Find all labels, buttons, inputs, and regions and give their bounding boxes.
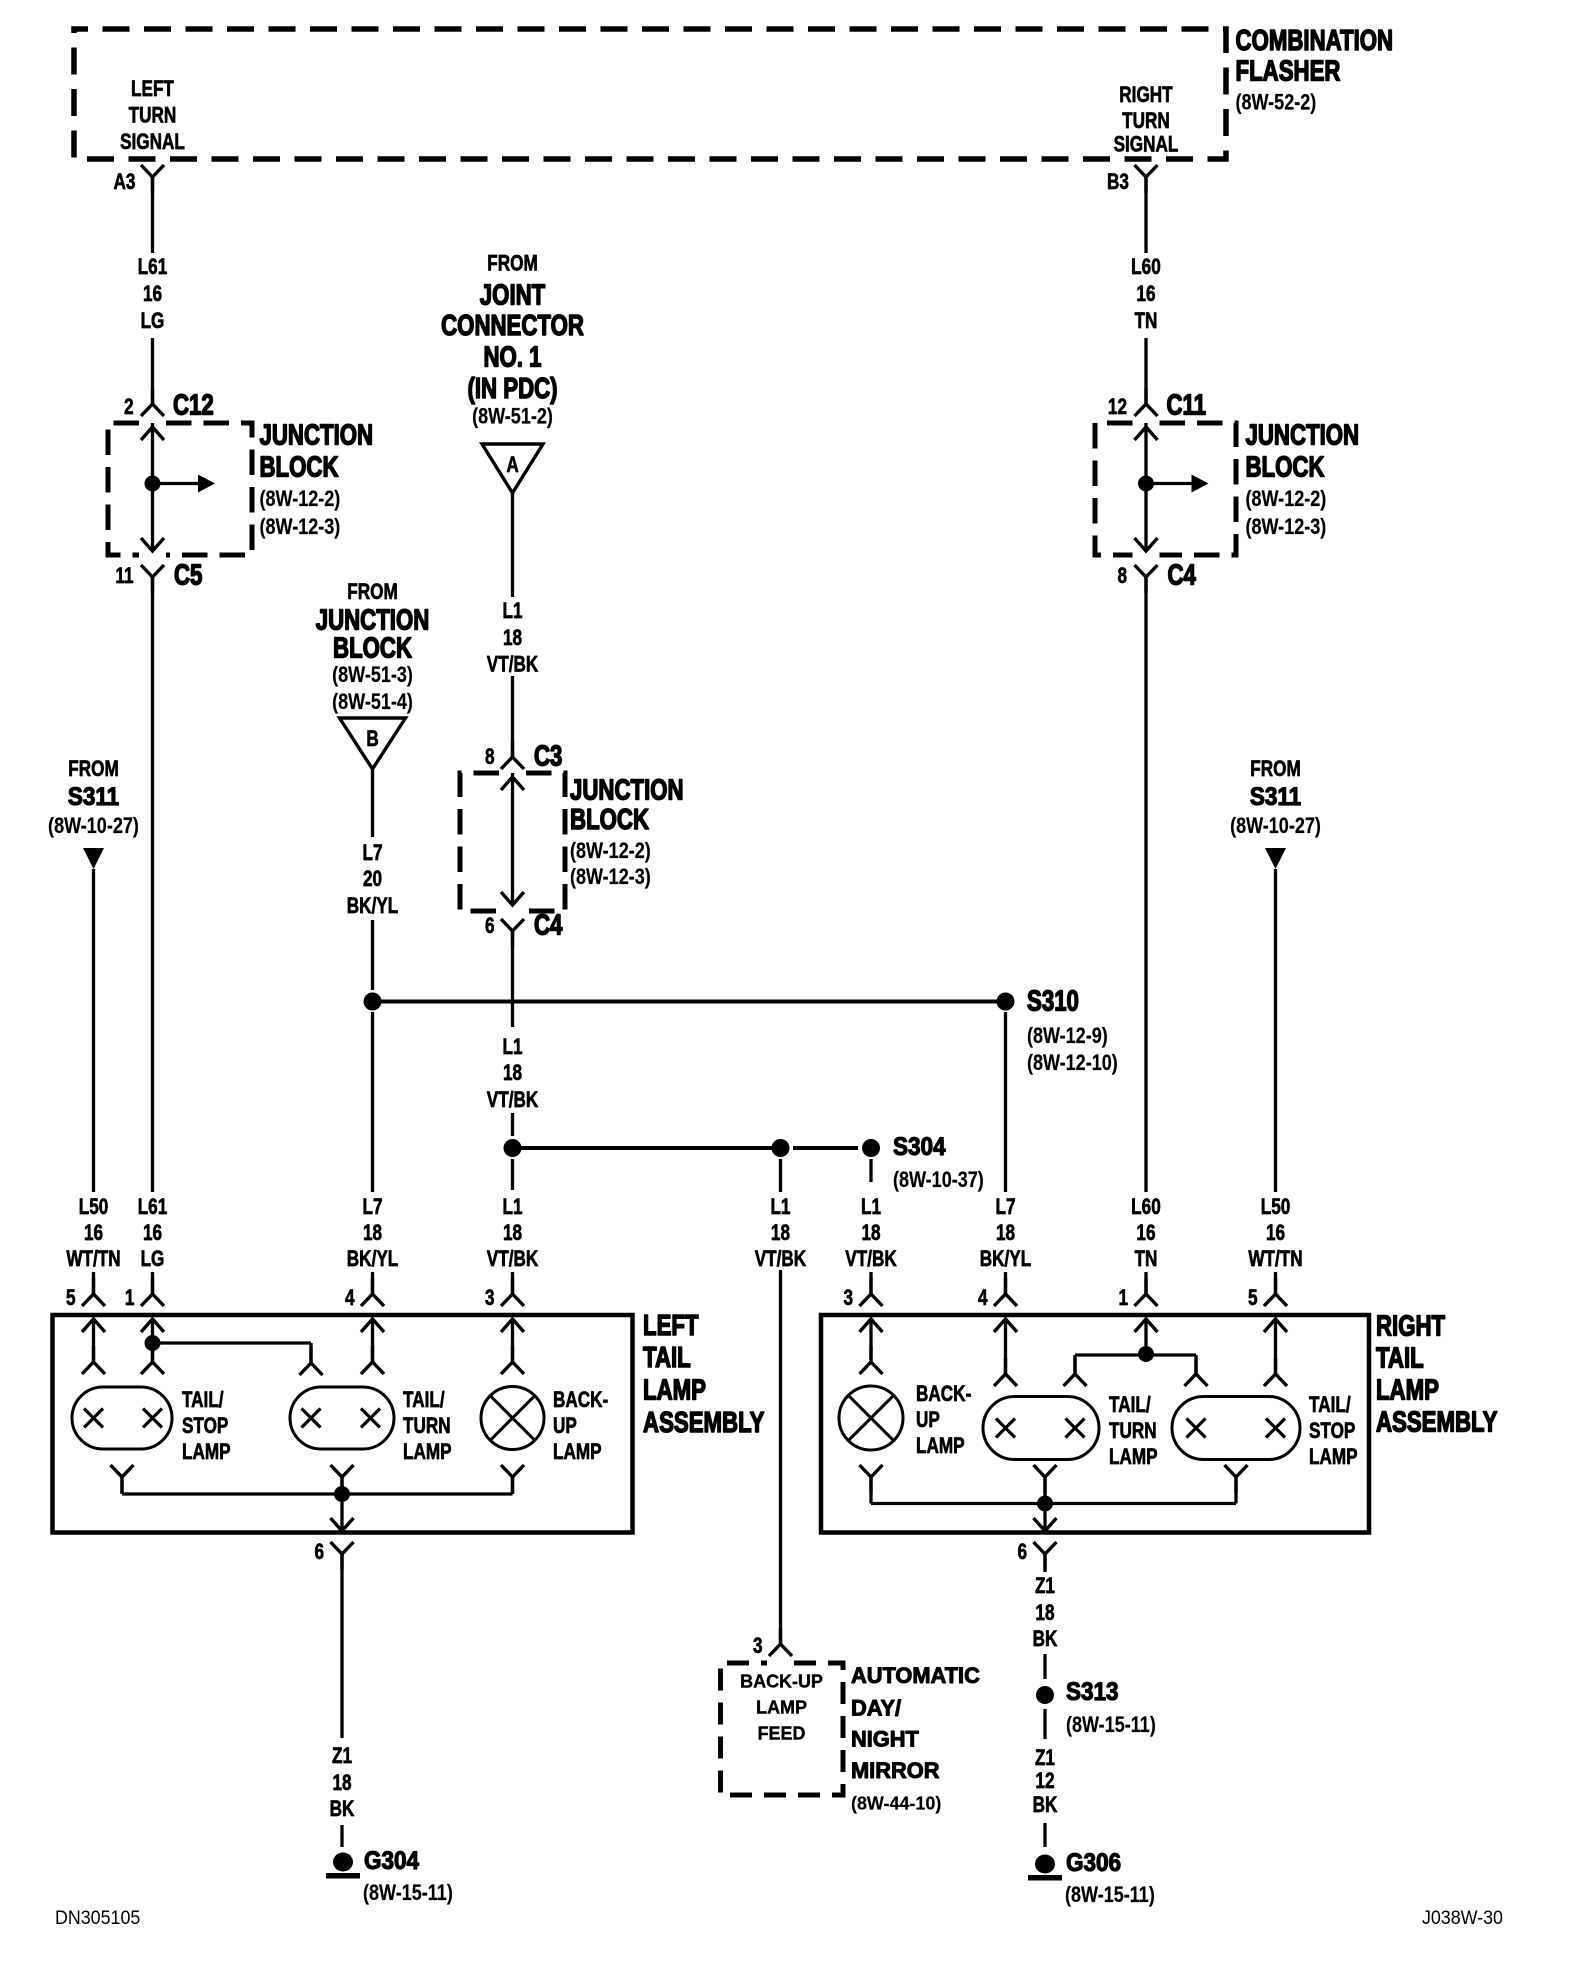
wire Z1 left <box>340 1554 343 1738</box>
svg-text:G304: G304 <box>364 1847 420 1875</box>
svg-text:VT/BK: VT/BK <box>755 1247 807 1272</box>
svg-text:S311: S311 <box>1250 783 1301 811</box>
right lamp pin 1 <box>1135 1278 1158 1306</box>
splice S310 bus wire <box>373 1000 1006 1004</box>
svg-text:CONNECTOR: CONNECTOR <box>441 310 584 341</box>
svg-text:L50: L50 <box>79 1195 109 1220</box>
svg-text:TAIL: TAIL <box>643 1342 691 1373</box>
svg-text:C12: C12 <box>173 390 214 421</box>
svg-text:BK/YL: BK/YL <box>347 1247 398 1272</box>
svg-text:LAMP: LAMP <box>756 1697 807 1717</box>
svg-text:BACK-: BACK- <box>916 1382 971 1407</box>
wire L1 backup feed long drop <box>779 1270 782 1644</box>
wire stub to S313 <box>1043 1654 1046 1679</box>
arrow in left block <box>153 482 199 485</box>
svg-text:ASSEMBLY: ASSEMBLY <box>643 1407 764 1438</box>
svg-text:BK/YL: BK/YL <box>980 1247 1031 1272</box>
wire L7 upper <box>371 769 374 837</box>
left lamp ground bus <box>122 1492 513 1495</box>
connector C4 pin 6 <box>501 919 524 947</box>
svg-text:VT/BK: VT/BK <box>845 1247 897 1272</box>
svg-text:16: 16 <box>1266 1221 1285 1246</box>
svg-text:JUNCTION: JUNCTION <box>316 605 430 636</box>
svg-text:DAY/: DAY/ <box>851 1695 901 1720</box>
svg-text:A: A <box>506 453 518 478</box>
svg-text:STOP: STOP <box>182 1414 228 1439</box>
svg-text:(8W-10-27): (8W-10-27) <box>48 814 139 838</box>
svg-text:J038W-30: J038W-30 <box>1422 1906 1503 1928</box>
svg-text:L61: L61 <box>138 1195 168 1220</box>
left box pin 6 <box>331 1542 354 1570</box>
backup lamp feed pin 3 <box>769 1628 792 1656</box>
wire L1 backup feed drop upper <box>779 1159 782 1192</box>
svg-text:LAMP: LAMP <box>1376 1375 1439 1406</box>
wire stub to G306 <box>1043 1823 1046 1847</box>
junction dot in left block <box>145 476 161 492</box>
wire L1 crossing S310 <box>511 931 514 1027</box>
svg-text:11: 11 <box>115 564 133 589</box>
svg-text:L50: L50 <box>1261 1195 1291 1220</box>
svg-text:TURN: TURN <box>403 1414 451 1439</box>
wire L50 right <box>1274 869 1277 1192</box>
svg-text:BLOCK: BLOCK <box>570 804 649 835</box>
svg-text:JUNCTION: JUNCTION <box>260 420 374 451</box>
svg-text:BLOCK: BLOCK <box>260 452 339 483</box>
svg-text:VT/BK: VT/BK <box>487 1088 539 1113</box>
svg-text:C4: C4 <box>534 910 563 941</box>
svg-text:FEED: FEED <box>758 1723 806 1743</box>
svg-text:TAIL/: TAIL/ <box>403 1388 445 1413</box>
svg-text:L7: L7 <box>995 1195 1015 1220</box>
svg-text:6: 6 <box>485 914 495 939</box>
svg-text:18: 18 <box>861 1221 880 1246</box>
svg-text:NIGHT: NIGHT <box>851 1726 919 1751</box>
svg-text:STOP: STOP <box>1309 1419 1355 1444</box>
svg-text:L60: L60 <box>1131 255 1161 280</box>
svg-text:LAMP: LAMP <box>553 1440 602 1465</box>
right back-up lamp <box>839 1386 903 1450</box>
left box pin 3 internals <box>501 1319 524 1332</box>
left box pin 4 internals <box>361 1319 384 1332</box>
svg-text:TAIL/: TAIL/ <box>1309 1393 1351 1418</box>
svg-text:RIGHT: RIGHT <box>1119 83 1172 108</box>
svg-text:12: 12 <box>1035 1769 1054 1794</box>
svg-text:(8W-10-27): (8W-10-27) <box>1230 814 1321 838</box>
svg-text:4: 4 <box>345 1286 355 1311</box>
svg-text:BLOCK: BLOCK <box>333 633 412 664</box>
svg-text:L1: L1 <box>503 1195 523 1220</box>
svg-text:A3: A3 <box>114 170 136 195</box>
svg-text:UP: UP <box>553 1414 577 1439</box>
svg-text:(8W-12-3): (8W-12-3) <box>260 515 341 539</box>
svg-text:JUNCTION: JUNCTION <box>570 775 684 806</box>
svg-text:3: 3 <box>485 1286 495 1311</box>
svg-text:18: 18 <box>1035 1601 1054 1626</box>
wire L61 to C12 <box>151 338 154 404</box>
svg-text:S304: S304 <box>893 1133 946 1161</box>
wire L1 to right lamp stub <box>869 1159 872 1182</box>
svg-text:18: 18 <box>771 1221 790 1246</box>
svg-text:L1: L1 <box>503 1035 523 1060</box>
svg-text:18: 18 <box>332 1771 351 1796</box>
svg-text:5: 5 <box>1248 1286 1258 1311</box>
svg-text:Z1: Z1 <box>332 1744 352 1769</box>
svg-text:SIGNAL: SIGNAL <box>1114 133 1179 158</box>
wire L61 long run <box>151 577 154 1192</box>
svg-text:BACK-UP: BACK-UP <box>740 1671 823 1691</box>
left box pin 5 internals <box>82 1319 105 1332</box>
connector C4 pin 8 right <box>1135 565 1158 593</box>
left lamp ground terminals <box>111 1465 134 1493</box>
svg-text:LAMP: LAMP <box>403 1440 452 1465</box>
svg-text:(8W-15-11): (8W-15-11) <box>363 1881 453 1905</box>
svg-text:TURN: TURN <box>1122 109 1170 134</box>
svg-text:C4: C4 <box>1168 560 1197 591</box>
combination flasher box <box>74 29 1226 159</box>
right box pin 1 internals <box>1135 1319 1158 1332</box>
wire inside junction block middle <box>501 777 524 790</box>
svg-text:(8W-12-2): (8W-12-2) <box>260 487 341 511</box>
wire L7 below splice <box>371 1012 374 1192</box>
svg-text:TURN: TURN <box>129 104 177 129</box>
right box pin 6 <box>1034 1542 1057 1570</box>
ground G304 <box>333 1853 353 1872</box>
svg-text:2: 2 <box>124 395 134 420</box>
right lamp pin 4 <box>994 1278 1017 1306</box>
svg-text:C5: C5 <box>174 560 202 591</box>
splice S304 bus wire <box>513 1146 781 1150</box>
wire Z1 right upper <box>1043 1554 1046 1572</box>
svg-text:VT/BK: VT/BK <box>487 653 539 678</box>
wire L1 to C3 <box>511 676 514 757</box>
svg-text:TN: TN <box>1135 1247 1158 1272</box>
svg-text:8: 8 <box>485 745 495 770</box>
splice S310 right dot <box>997 993 1015 1011</box>
svg-text:BK/YL: BK/YL <box>347 894 398 919</box>
svg-text:Z1: Z1 <box>1035 1574 1055 1599</box>
svg-text:5: 5 <box>66 1286 76 1311</box>
svg-text:20: 20 <box>363 867 382 892</box>
svg-text:(8W-51-3): (8W-51-3) <box>332 663 413 687</box>
svg-text:DN305105: DN305105 <box>55 1906 140 1928</box>
svg-text:NO. 1: NO. 1 <box>484 342 542 373</box>
left tail/stop lamp <box>72 1387 172 1449</box>
junction dot left ground bus <box>334 1486 350 1502</box>
wire to left box pin 6 <box>340 1494 343 1531</box>
wire inside junction block right <box>1135 427 1158 440</box>
connector C3 pin 8 <box>501 741 524 769</box>
connector triangle A <box>482 444 543 493</box>
svg-text:FLASHER: FLASHER <box>1236 56 1341 87</box>
ground G306 <box>1035 1855 1055 1874</box>
svg-text:JOINT: JOINT <box>480 280 546 311</box>
svg-text:S311: S311 <box>68 783 119 811</box>
svg-text:1: 1 <box>125 1286 135 1311</box>
right lamp pin 5 <box>1264 1278 1287 1306</box>
svg-text:(8W-12-9): (8W-12-9) <box>1027 1024 1108 1048</box>
left lamp pin 4 <box>361 1278 384 1306</box>
branch wire to tail/turn lamp <box>153 1341 312 1344</box>
right tail lamp assembly box <box>821 1315 1369 1533</box>
left lamp pin 5 <box>82 1278 105 1306</box>
connector C12 pin 2 <box>141 388 164 416</box>
wire L60 to C11 <box>1144 338 1147 404</box>
svg-text:6: 6 <box>1017 1540 1027 1565</box>
svg-text:B3: B3 <box>1107 170 1129 195</box>
wire inside junction block left <box>141 427 164 440</box>
right box pin 3 internals <box>860 1319 883 1332</box>
svg-text:1: 1 <box>1118 1286 1128 1311</box>
right tail/turn lamp <box>983 1397 1099 1460</box>
feed arrow from S311 right <box>1265 848 1286 869</box>
svg-text:TN: TN <box>1135 309 1158 334</box>
splice S313 <box>1036 1686 1054 1704</box>
svg-text:16: 16 <box>143 1221 162 1246</box>
left lamp pin 3 <box>501 1278 524 1306</box>
arrow in right block <box>1146 482 1192 485</box>
svg-text:C3: C3 <box>534 741 562 772</box>
svg-text:TAIL: TAIL <box>1376 1343 1424 1374</box>
svg-text:18: 18 <box>363 1221 382 1246</box>
junction dot right ground bus <box>1037 1496 1053 1512</box>
right box pin 4 internals <box>994 1319 1017 1332</box>
svg-text:Z1: Z1 <box>1035 1746 1055 1771</box>
svg-text:16: 16 <box>143 282 162 307</box>
svg-text:18: 18 <box>996 1221 1015 1246</box>
svg-text:18: 18 <box>503 626 522 651</box>
svg-text:ASSEMBLY: ASSEMBLY <box>1376 1407 1497 1438</box>
svg-text:L61: L61 <box>138 255 168 280</box>
svg-text:LAMP: LAMP <box>1109 1445 1158 1470</box>
svg-text:18: 18 <box>503 1061 522 1086</box>
svg-text:JUNCTION: JUNCTION <box>1246 420 1360 451</box>
svg-text:TAIL/: TAIL/ <box>1109 1393 1151 1418</box>
svg-text:(8W-12-10): (8W-12-10) <box>1027 1051 1118 1075</box>
splice S310 left dot <box>364 993 382 1011</box>
left lamp pin 1 <box>141 1278 164 1306</box>
svg-text:BLOCK: BLOCK <box>1246 452 1325 483</box>
svg-text:FROM: FROM <box>347 580 398 605</box>
svg-text:MIRROR: MIRROR <box>851 1758 939 1783</box>
svg-text:(8W-51-2): (8W-51-2) <box>472 405 553 429</box>
svg-text:3: 3 <box>843 1286 853 1311</box>
junction dot in right block <box>1138 476 1154 492</box>
right lamp pin 3 <box>860 1278 883 1306</box>
wire stub above S304 <box>511 1113 514 1136</box>
svg-text:(8W-15-11): (8W-15-11) <box>1066 1713 1156 1737</box>
backup lamp feed box <box>721 1663 844 1795</box>
junction block middle box <box>526 773 565 911</box>
connector pin B3 <box>1135 165 1158 193</box>
right lamp ground terminals <box>860 1465 883 1493</box>
svg-text:LAMP: LAMP <box>643 1375 706 1406</box>
svg-text:L1: L1 <box>861 1195 881 1220</box>
svg-text:LAMP: LAMP <box>916 1434 965 1459</box>
svg-text:(8W-12-3): (8W-12-3) <box>570 865 651 889</box>
svg-text:B: B <box>366 727 378 752</box>
left box pin 1 internals <box>141 1319 164 1332</box>
splice S304 middle dot <box>772 1139 790 1157</box>
svg-text:BK: BK <box>330 1797 355 1822</box>
svg-text:(8W-51-4): (8W-51-4) <box>332 690 413 714</box>
svg-text:C11: C11 <box>1166 390 1206 421</box>
right lamp ground bus <box>871 1502 1236 1505</box>
svg-text:S313: S313 <box>1066 1678 1119 1706</box>
svg-text:WT/TN: WT/TN <box>1248 1247 1302 1272</box>
svg-text:(8W-12-3): (8W-12-3) <box>1245 515 1326 539</box>
svg-text:COMBINATION: COMBINATION <box>1236 25 1394 56</box>
svg-text:L60: L60 <box>1131 1195 1161 1220</box>
svg-text:WT/TN: WT/TN <box>66 1247 120 1272</box>
svg-text:FROM: FROM <box>1250 757 1301 782</box>
svg-text:(8W-10-37): (8W-10-37) <box>893 1168 984 1192</box>
svg-text:8: 8 <box>1117 564 1127 589</box>
connector triangle B <box>340 718 406 769</box>
wire L61 to lamp pin 1 <box>151 1272 154 1294</box>
svg-text:16: 16 <box>1136 1221 1155 1246</box>
svg-text:TURN: TURN <box>1109 1419 1157 1444</box>
svg-text:TAIL/: TAIL/ <box>182 1388 224 1413</box>
svg-text:UP: UP <box>916 1408 940 1433</box>
svg-text:L7: L7 <box>363 841 383 866</box>
svg-text:VT/BK: VT/BK <box>487 1247 539 1272</box>
svg-text:LEFT: LEFT <box>643 1310 699 1341</box>
svg-text:LAMP: LAMP <box>182 1440 231 1465</box>
wire to right box pin 6 <box>1043 1504 1046 1532</box>
svg-text:18: 18 <box>503 1221 522 1246</box>
splice S304 left dot <box>504 1139 522 1157</box>
junction block right box <box>1160 423 1237 555</box>
junction block left box <box>166 423 252 555</box>
left tail/turn lamp <box>290 1387 394 1449</box>
svg-text:S310: S310 <box>1027 986 1079 1017</box>
svg-text:3: 3 <box>753 1634 763 1659</box>
wire L7 right drop <box>1004 1012 1007 1192</box>
junction dot right box <box>1138 1346 1154 1362</box>
svg-text:FROM: FROM <box>68 757 119 782</box>
wire below S313 <box>1043 1709 1046 1739</box>
splice S304 right dot <box>862 1139 880 1157</box>
svg-text:L1: L1 <box>770 1195 790 1220</box>
wire L1 upper <box>511 493 514 597</box>
splice S304 link wire <box>793 1146 858 1150</box>
svg-text:RIGHT: RIGHT <box>1376 1311 1445 1342</box>
wire L60 upper <box>1144 177 1147 253</box>
svg-text:BACK-: BACK- <box>553 1388 608 1413</box>
svg-text:(8W-15-11): (8W-15-11) <box>1065 1883 1155 1907</box>
svg-text:(8W-44-10): (8W-44-10) <box>851 1793 941 1813</box>
svg-text:LG: LG <box>141 309 165 334</box>
svg-text:16: 16 <box>1136 282 1155 307</box>
right tail/stop lamp <box>1172 1397 1300 1460</box>
svg-text:(IN PDC): (IN PDC) <box>467 373 557 404</box>
svg-text:BK: BK <box>1033 1627 1058 1652</box>
svg-text:16: 16 <box>84 1221 103 1246</box>
wire L60 long run <box>1144 577 1147 1192</box>
svg-text:BK: BK <box>1033 1793 1058 1818</box>
left back-up lamp <box>481 1387 544 1450</box>
svg-text:6: 6 <box>314 1540 324 1565</box>
connector C11 pin 12 <box>1135 388 1158 416</box>
svg-text:LEFT: LEFT <box>131 77 174 102</box>
svg-text:FROM: FROM <box>487 252 538 277</box>
svg-text:L1: L1 <box>503 599 523 624</box>
wire L61 upper <box>151 177 154 253</box>
svg-text:(8W-12-2): (8W-12-2) <box>570 839 651 863</box>
svg-text:(8W-12-2): (8W-12-2) <box>1245 487 1326 511</box>
junction dot left box <box>145 1335 161 1351</box>
branch wire to right lamps <box>1075 1353 1196 1356</box>
svg-text:AUTOMATIC: AUTOMATIC <box>851 1663 980 1688</box>
svg-text:LG: LG <box>141 1247 165 1272</box>
left tail lamp assembly box <box>53 1315 633 1533</box>
svg-text:SIGNAL: SIGNAL <box>120 130 185 155</box>
svg-text:G306: G306 <box>1066 1849 1121 1877</box>
svg-text:4: 4 <box>978 1286 988 1311</box>
feed arrow from S311 left <box>83 848 104 869</box>
svg-text:L7: L7 <box>363 1195 383 1220</box>
svg-text:(8W-52-2): (8W-52-2) <box>1235 91 1316 115</box>
svg-text:12: 12 <box>1108 395 1127 420</box>
svg-text:LAMP: LAMP <box>1309 1445 1358 1470</box>
connector pin A3 <box>141 165 164 193</box>
wire L7 to splice <box>371 920 374 990</box>
wire L50 left <box>92 869 95 1192</box>
wire stub to G304 <box>340 1825 343 1847</box>
wire L1 below S304 left <box>511 1159 514 1190</box>
connector C5 pin 11 <box>141 565 164 593</box>
right box pin 5 internals <box>1264 1319 1287 1332</box>
